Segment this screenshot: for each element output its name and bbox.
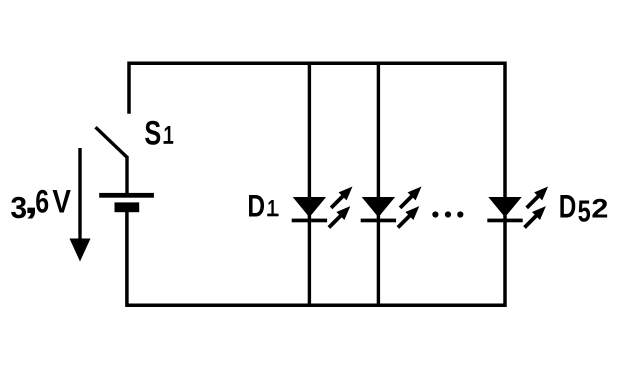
svg-text:1: 1 xyxy=(164,121,174,149)
svg-text:D: D xyxy=(247,188,265,224)
svg-text:5: 5 xyxy=(578,194,591,229)
svg-text:1: 1 xyxy=(267,197,277,222)
svg-text:V: V xyxy=(52,185,71,220)
svg-text:D: D xyxy=(559,189,577,225)
svg-text:2: 2 xyxy=(591,194,608,224)
svg-text:6: 6 xyxy=(35,185,49,221)
svg-text:S: S xyxy=(144,115,161,153)
